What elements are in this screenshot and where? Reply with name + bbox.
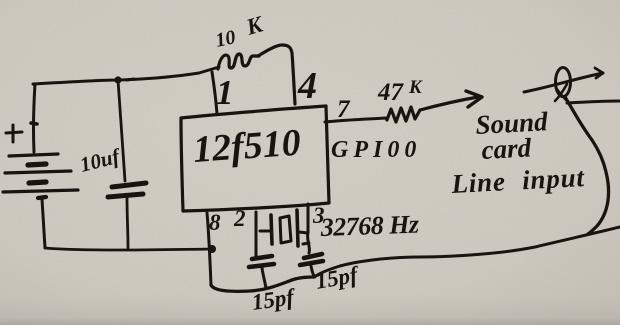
battery B1 xyxy=(3,154,78,198)
text sound card line input xyxy=(450,106,586,199)
svg-text:2: 2 xyxy=(233,206,246,231)
wire: battery - lead down xyxy=(42,199,45,248)
resistor R2 (47K) xyxy=(387,107,420,122)
svg-text:GPI00: GPI00 xyxy=(331,137,421,163)
junction dot pin8/bottom rail xyxy=(208,245,216,253)
junction dot at C1 top xyxy=(114,76,134,83)
pin label 7 xyxy=(337,96,351,123)
svg-text:1: 1 xyxy=(216,73,234,112)
svg-text:12f510: 12f510 xyxy=(192,122,302,171)
wire: long return from sound card to ground xyxy=(314,227,620,277)
wire: jack upper line with arrowhead xyxy=(524,68,603,92)
wire: jack lower line xyxy=(567,101,620,103)
svg-text:4: 4 xyxy=(297,65,317,107)
pin label 1 xyxy=(216,73,234,112)
pin label 8 xyxy=(209,210,221,235)
connector J1 (jack plug) xyxy=(555,68,571,105)
capacitor C1 (10uF) top lead xyxy=(118,80,125,181)
svg-text:32768 Hz: 32768 Hz xyxy=(319,210,420,242)
net label GPI00 xyxy=(331,137,421,163)
label 32768 Hz xyxy=(319,210,420,242)
label 15pf left xyxy=(250,284,298,315)
resistor R1 (10K) xyxy=(218,54,259,69)
wire: battery + to top rail xyxy=(34,84,35,152)
wire: pin 1 stub xyxy=(212,72,217,114)
pin label 4 xyxy=(297,65,317,107)
label 12f510 xyxy=(192,122,302,171)
crystal X1 xyxy=(260,210,308,246)
wire: bottom rail (battery/cap negative bus) xyxy=(45,248,212,250)
label 47K xyxy=(377,77,423,106)
svg-text:K: K xyxy=(408,77,423,98)
wire: jack cable curve xyxy=(565,97,609,234)
wire: pin 8 stub down xyxy=(207,213,211,285)
wire with arrow to sound card xyxy=(420,91,482,110)
wire: top rail from battery to resistor R1 xyxy=(33,67,219,84)
label 10uf xyxy=(77,143,123,176)
svg-text:8: 8 xyxy=(209,210,221,235)
capacitor C3 (15pf right) xyxy=(300,243,323,277)
junction tick on battery lead xyxy=(31,123,37,124)
svg-text:7: 7 xyxy=(337,96,351,123)
label 10K xyxy=(213,11,266,52)
capacitor C2 (15pf left) xyxy=(249,256,274,288)
wire: ground rail under crystal caps xyxy=(211,277,314,291)
wire: pin 7 stub xyxy=(325,118,387,122)
label 15pf right xyxy=(314,262,362,294)
svg-text:47: 47 xyxy=(377,79,405,106)
pin label 2 xyxy=(233,206,246,231)
plus sign of battery xyxy=(6,125,22,142)
wire: pin 2 stub down to C2 xyxy=(255,212,258,258)
capacitor C1 plates xyxy=(108,183,146,197)
svg-text:card: card xyxy=(481,132,532,165)
wire: pin 3 stub xyxy=(308,204,310,253)
op-amp U1: IC box 12f510 xyxy=(181,106,329,211)
wire: R1 to pin 4 xyxy=(258,45,295,104)
pin label 3 xyxy=(312,203,325,228)
capacitor C1 bottom lead xyxy=(127,198,128,248)
